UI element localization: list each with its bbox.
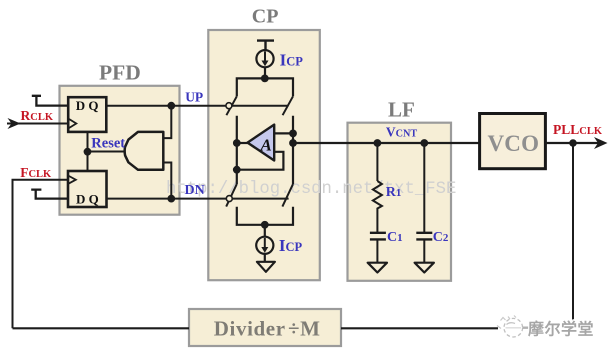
arrowhead PLLCLK xyxy=(594,137,608,149)
CP supply T-bar xyxy=(257,41,274,51)
switch S3 blade (DN dummy) xyxy=(226,184,237,207)
tie-high symbol FF2 D input xyxy=(31,190,69,199)
PFD block box xyxy=(60,86,180,215)
wire AND top input to UP xyxy=(164,106,172,138)
ground CP xyxy=(257,262,275,272)
junction dot CP bottom rail xyxy=(261,221,269,229)
resistor R1 xyxy=(373,181,382,233)
junction dot left rail at feedback xyxy=(233,166,241,174)
wire reset net vertical xyxy=(87,132,89,171)
switch bubble DN xyxy=(226,196,232,202)
D flip-flop U2 (bottom) xyxy=(68,171,107,207)
svg-text:摩尔学堂: 摩尔学堂 xyxy=(528,320,594,339)
CP block box xyxy=(208,30,319,280)
junction dot left rail at amp output xyxy=(233,139,241,147)
junction dot reset xyxy=(84,148,92,156)
wire reset to AND output xyxy=(88,151,125,153)
watermark logo icon xyxy=(497,316,530,338)
junction dot right rail at amp input xyxy=(289,130,297,138)
wire AND bottom input to DN xyxy=(164,163,172,199)
capacitor C2 xyxy=(416,233,432,240)
wire divider bottom xyxy=(13,327,499,329)
junction dot right rail at output node xyxy=(289,139,297,147)
right rail xyxy=(292,116,294,184)
svg-text:PFD: PFD xyxy=(99,61,141,85)
switch bubble UP xyxy=(226,103,232,109)
D flip-flop U1 (top) xyxy=(68,97,106,132)
current source I2 stem lower xyxy=(264,254,266,262)
wire feedback right vertical xyxy=(572,143,574,328)
Divider block box xyxy=(189,309,341,346)
wire VCO output xyxy=(545,142,600,144)
wire DN net xyxy=(106,198,289,200)
wire main VCNT net xyxy=(293,142,480,144)
tie-high symbol FF1 D input xyxy=(32,96,69,106)
LF right branch wire xyxy=(423,143,425,233)
svg-text:UP: UP xyxy=(185,90,203,105)
wire RCLK input xyxy=(7,123,69,125)
svg-text:Reset: Reset xyxy=(91,135,125,151)
svg-text:DN: DN xyxy=(185,183,205,198)
LF left branch wire xyxy=(376,143,378,181)
switch S1 blade (UP dummy) xyxy=(226,96,236,115)
current source I2 (bottom ICP) xyxy=(256,237,273,254)
switch S2 blade (UP out) xyxy=(283,96,293,115)
svg-text:LF: LF xyxy=(388,97,415,121)
current source I2 stem upper xyxy=(264,225,266,237)
junction dot VCNT left xyxy=(374,139,382,147)
wire C1 to ground xyxy=(376,239,378,262)
VCO block box xyxy=(480,114,546,169)
arrowhead RCLK xyxy=(8,118,21,129)
capacitor C1 xyxy=(370,233,386,240)
LF block box xyxy=(348,123,452,281)
left rail xyxy=(236,116,238,184)
junction dot UP at PFD xyxy=(167,102,175,110)
current source I1 stem xyxy=(264,67,266,78)
switch S4 blade (DN out) xyxy=(282,184,293,207)
svg-text:C1: C1 xyxy=(387,230,403,245)
CP top rail bar xyxy=(237,78,293,96)
svg-text:D Q: D Q xyxy=(76,98,99,113)
svg-text:CP: CP xyxy=(252,6,279,28)
svg-text:http://blog.csdn.net/txt_FSE: http://blog.csdn.net/txt_FSE xyxy=(166,180,456,199)
CP bottom rail bar xyxy=(237,207,293,225)
amp apex wire xyxy=(237,142,248,144)
wire C2 to ground xyxy=(423,239,425,262)
svg-text:A: A xyxy=(260,136,272,155)
svg-text:C2: C2 xyxy=(433,230,449,245)
svg-text:R1: R1 xyxy=(386,185,402,200)
junction dot CP top rail xyxy=(261,75,269,83)
ground C2 xyxy=(415,263,434,273)
wire UP net xyxy=(106,105,288,107)
amp input wire xyxy=(274,132,293,134)
op-amp A xyxy=(248,125,275,161)
svg-text:Divider ÷M: Divider ÷M xyxy=(214,317,321,341)
junction dot PLLCLK xyxy=(569,139,577,147)
ground C1 xyxy=(368,263,387,273)
AND gate (reset) xyxy=(125,132,164,170)
amp feedback wire xyxy=(237,152,284,170)
svg-text:VCO: VCO xyxy=(488,131,540,156)
junction dot VCNT right xyxy=(420,139,428,147)
junction dot DN at PFD xyxy=(167,195,175,203)
wire FCLK input xyxy=(13,180,70,329)
current source I1 (top ICP) xyxy=(256,50,273,67)
svg-text:D Q: D Q xyxy=(76,191,99,206)
